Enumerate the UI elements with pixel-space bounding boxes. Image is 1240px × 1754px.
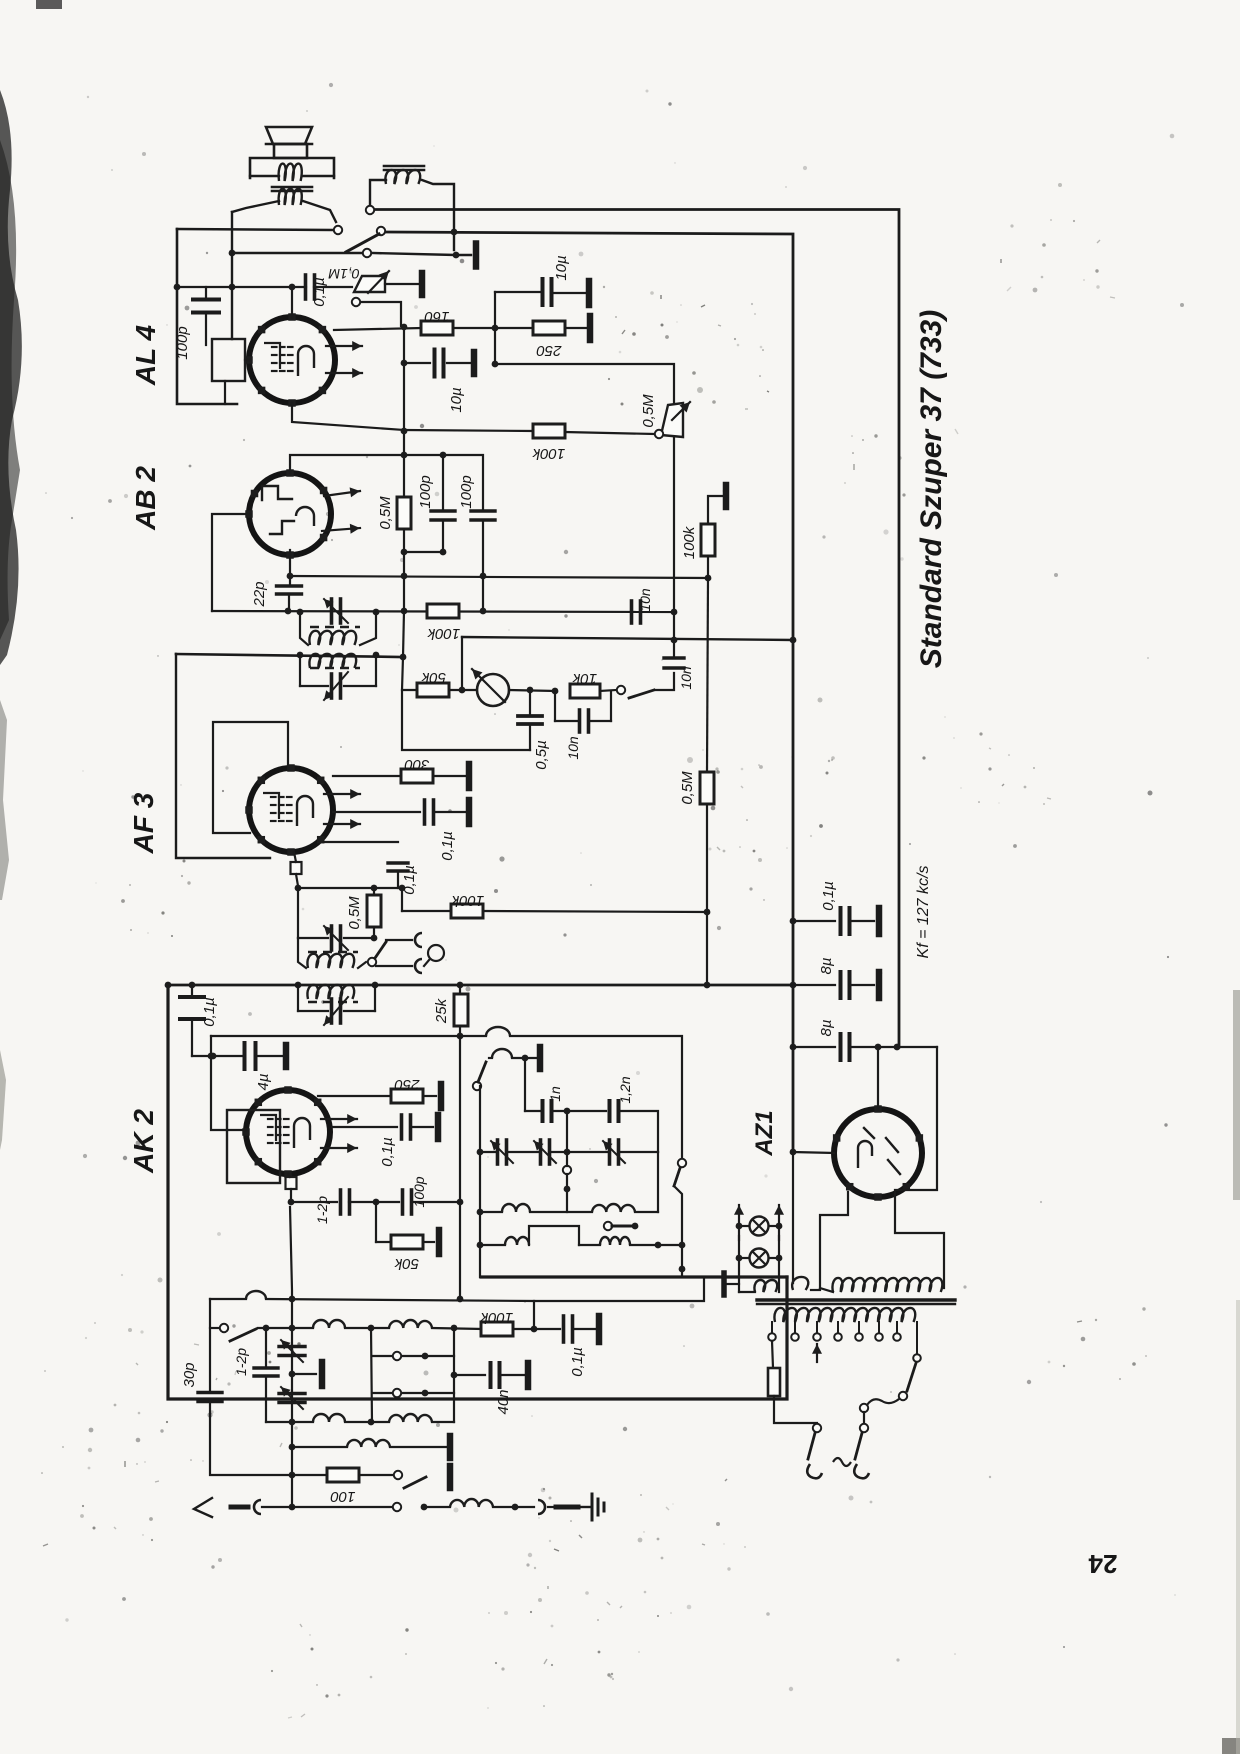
junction — [373, 1199, 380, 1206]
wire AB2 grid return — [212, 514, 250, 611]
svg-text:100p: 100p — [458, 475, 475, 508]
svg-text:Standard Szuper 37 (733): Standard Szuper 37 (733) — [915, 310, 948, 668]
svg-text:50k: 50k — [393, 1255, 419, 1272]
junction — [790, 1044, 797, 1051]
tube AL4 — [249, 317, 335, 403]
capacitor 100p — [177, 286, 306, 288]
svg-text:10µ: 10µ — [553, 255, 570, 280]
wire AF3 grid col — [297, 888, 299, 938]
junction — [459, 687, 466, 694]
coil mains tap loop — [792, 1277, 808, 1290]
svg-text:0,1µ: 0,1µ — [569, 1347, 586, 1377]
capacitor 30p — [198, 1391, 222, 1394]
wire AVC col — [402, 657, 530, 750]
resistor 10k — [570, 684, 600, 698]
switch mains blade1 — [808, 1433, 815, 1459]
svg-text:0,5M: 0,5M — [346, 896, 363, 930]
meter M — [477, 674, 509, 706]
contact volt b — [860, 1404, 868, 1412]
junction — [704, 909, 711, 916]
ground — [447, 1436, 454, 1458]
antenna A — [194, 1498, 212, 1517]
wire AZ1 left pin — [793, 1152, 834, 1153]
potentiometer 0,5M volume — [661, 403, 683, 437]
wire 4µ row — [192, 1055, 242, 1057]
junction — [174, 284, 181, 291]
junction — [705, 575, 712, 582]
resistor 100k ant — [481, 1322, 513, 1336]
wire — [428, 1506, 450, 1508]
resistor 160 — [421, 321, 453, 335]
mains prong 2 — [854, 1464, 869, 1478]
junction — [165, 982, 172, 989]
choke L-field — [384, 165, 424, 168]
switch band blade — [230, 1329, 256, 1341]
capacitor 0,1µ kc — [793, 920, 835, 922]
wire — [509, 690, 555, 691]
svg-text:100p: 100p — [411, 1176, 427, 1207]
ground — [876, 972, 883, 998]
wire osc coil row2 — [480, 1244, 505, 1246]
wire — [566, 1174, 568, 1212]
symbol ~ — [833, 1458, 851, 1466]
capacitor 100p b — [471, 509, 495, 512]
wire bus screen — [386, 232, 793, 1152]
wire diode line y552 — [404, 551, 443, 553]
svg-text:22p: 22p — [251, 581, 268, 607]
output transformer Tr1 primary — [250, 158, 334, 178]
svg-text:0,1µ: 0,1µ — [820, 881, 837, 911]
power transformer taps — [771, 1322, 773, 1332]
ground — [435, 1115, 442, 1139]
junction — [372, 982, 379, 989]
resistor 100k coupling — [533, 424, 565, 438]
capacitor 8µ b — [793, 1046, 835, 1048]
capacitor 22p — [289, 550, 291, 586]
junction — [297, 652, 304, 659]
resistor 0,5M AB2 — [397, 497, 411, 529]
switch mains blade2 — [855, 1433, 862, 1459]
wire AL4 left rail — [177, 229, 237, 404]
svg-text:25k: 25k — [433, 997, 450, 1024]
resistor 25k — [454, 994, 468, 1026]
tuning capacitor VC-a — [279, 1345, 305, 1348]
contact osc3 — [678, 1159, 686, 1167]
wire volt link — [867, 1399, 899, 1405]
wire antenna row — [262, 1506, 292, 1508]
wire 25k col — [459, 1036, 461, 1299]
contact pot — [352, 298, 360, 306]
wire — [706, 804, 708, 985]
fuse F1 — [772, 1341, 773, 1368]
svg-text:0,1µ: 0,1µ — [401, 865, 418, 895]
svg-text:100p: 100p — [174, 326, 191, 359]
wire bridge row 1 — [372, 1355, 454, 1357]
IF transformer T2 top trimmer — [298, 937, 328, 939]
svg-text:Kf = 127 kc/s: Kf = 127 kc/s — [915, 866, 932, 959]
wire 0,1µ col — [191, 985, 193, 995]
power transformer Tr2 primary — [774, 1308, 915, 1322]
switch blade — [404, 1477, 426, 1488]
wire — [566, 1111, 568, 1152]
junction — [440, 549, 447, 556]
ground — [596, 1316, 603, 1342]
wire AF3 grid line — [298, 887, 402, 889]
capacitor 0,1µ k — [324, 841, 398, 843]
wire ant box left — [209, 1299, 211, 1392]
svg-text:100k: 100k — [531, 445, 565, 462]
contact — [393, 1503, 401, 1511]
svg-text:1-2p: 1-2p — [314, 1196, 330, 1224]
junction — [229, 284, 236, 291]
svg-text:0,5µ: 0,5µ — [533, 740, 550, 770]
wire AK2 grid column — [290, 1207, 292, 1507]
svg-text:250: 250 — [536, 342, 563, 359]
junction — [453, 252, 460, 259]
core — [308, 951, 358, 954]
wire pot to plate line — [361, 302, 401, 326]
wire AF3 plate 300 — [333, 775, 402, 777]
wire plate col — [403, 327, 405, 455]
svg-text:50k: 50k — [420, 669, 446, 686]
wire coil row A — [258, 1327, 313, 1329]
svg-text:0,5M: 0,5M — [377, 496, 394, 530]
ground — [721, 1273, 727, 1295]
svg-text:10n: 10n — [637, 588, 653, 612]
tap arrow — [816, 1344, 818, 1362]
junction — [289, 1472, 296, 1479]
wire AK2 box — [168, 985, 787, 1399]
capacitor 0,1µ AL4 grid — [304, 275, 308, 299]
resistor 300 — [401, 769, 433, 783]
tuning capacitor VC-b — [279, 1392, 305, 1395]
capacitor 0,1µ sg — [333, 811, 420, 813]
junction — [790, 637, 797, 644]
wire det line y611 — [212, 611, 674, 612]
wire 0,5M col — [707, 578, 708, 771]
ground — [525, 1363, 532, 1387]
capacitor 10n parallel — [554, 691, 556, 721]
junction — [704, 982, 711, 989]
wire bridge row 2 — [372, 1392, 454, 1394]
junction — [401, 549, 408, 556]
wire — [292, 1373, 316, 1375]
svg-text:1,2n: 1,2n — [617, 1076, 633, 1103]
junction — [477, 1209, 484, 1216]
contact pu — [368, 958, 376, 966]
contact a2 — [334, 226, 342, 234]
capacitor 1-2p ant — [265, 1328, 267, 1366]
output transformer Tr1 core — [272, 186, 312, 189]
svg-text:AF 3: AF 3 — [128, 792, 159, 854]
grid cap AF3 — [291, 862, 302, 874]
contact osc2 — [563, 1166, 571, 1174]
junction — [457, 1033, 464, 1040]
wire — [656, 673, 674, 690]
wire — [565, 432, 654, 434]
wire mains bar — [727, 1283, 739, 1285]
junction — [263, 1325, 270, 1332]
contact tap — [604, 1222, 612, 1230]
contact mains1 — [813, 1424, 821, 1432]
switch blade pu — [375, 942, 386, 958]
capacitor 100p osc — [349, 1201, 399, 1203]
junction — [531, 1326, 538, 1333]
contact a4 — [363, 249, 371, 257]
output transformer Tr1 secondary — [279, 189, 302, 205]
coil fil hairpin — [754, 1280, 777, 1292]
svg-text:160: 160 — [424, 308, 450, 325]
contact band1 — [220, 1324, 228, 1332]
svg-text:1-2p: 1-2p — [233, 1348, 249, 1376]
wire — [548, 1506, 554, 1508]
wire — [513, 1328, 560, 1330]
junction — [440, 452, 447, 459]
contact — [393, 1389, 401, 1397]
speaker LS — [266, 127, 312, 144]
ground — [447, 1466, 454, 1488]
grid cap AK2 — [286, 1177, 297, 1189]
resistor 0,5M AF3 — [367, 895, 381, 927]
mains prong 1 — [807, 1464, 822, 1478]
junction — [289, 1371, 296, 1378]
resistor 100k AF3 — [451, 904, 483, 918]
wire AZ1 fil 1 — [820, 1192, 848, 1288]
resistor 100 ant — [327, 1468, 359, 1482]
ground — [586, 281, 593, 305]
svg-text:1n: 1n — [547, 1086, 563, 1102]
wire y364 to volume pot — [495, 364, 674, 403]
junction — [297, 609, 304, 616]
wire AL4 plate stub — [291, 287, 293, 318]
capacitor 10n to AVC — [664, 656, 684, 659]
ground — [319, 1362, 326, 1386]
ground — [466, 764, 473, 788]
junction — [371, 885, 378, 892]
svg-text:10µ: 10µ — [448, 387, 465, 412]
junction — [451, 229, 458, 236]
resistor 0,5M right — [700, 772, 714, 804]
tube AZ1 — [834, 1109, 922, 1197]
capacitor 100p plates — [205, 287, 207, 298]
wire plate line y328 — [334, 328, 421, 330]
wire OT return — [231, 212, 233, 339]
switch volt blade — [907, 1363, 916, 1391]
junction — [457, 1199, 464, 1206]
wire 0,5M col — [403, 552, 405, 611]
capacitor 8µ a — [793, 984, 835, 986]
svg-text:10n: 10n — [678, 666, 694, 690]
wire — [401, 888, 403, 911]
junction — [401, 452, 408, 459]
wire AVC bus left drop — [176, 654, 270, 858]
junction — [457, 982, 464, 989]
wire 10u col — [494, 292, 496, 364]
wire AVC bus — [176, 654, 402, 657]
svg-text:0,1µ: 0,1µ — [201, 997, 218, 1027]
svg-text:100k: 100k — [479, 1309, 513, 1326]
contact pot — [655, 430, 663, 438]
svg-text:100p: 100p — [417, 475, 434, 508]
junction — [894, 1044, 901, 1051]
contact — [393, 1352, 401, 1360]
svg-text:0,1µ: 0,1µ — [439, 831, 456, 861]
wire — [600, 690, 616, 691]
junction — [373, 652, 380, 659]
junction — [371, 935, 378, 942]
resistor 250 — [533, 321, 565, 335]
svg-text:10n: 10n — [565, 736, 581, 760]
junction — [451, 1325, 458, 1332]
junction — [679, 1266, 686, 1273]
ground — [587, 316, 594, 340]
junction — [480, 608, 487, 615]
junction — [552, 688, 559, 695]
contact a1 — [366, 206, 374, 214]
contact a3 — [377, 227, 385, 235]
ground — [436, 1230, 443, 1254]
junction — [421, 1504, 428, 1511]
capacitor 0,1µ ant — [562, 1316, 566, 1342]
wire — [493, 1506, 534, 1508]
svg-text:40n: 40n — [495, 1389, 512, 1414]
wire coil row B — [266, 1421, 313, 1423]
svg-text:AK 2: AK 2 — [128, 1109, 159, 1174]
junction — [422, 1390, 429, 1397]
ground — [473, 244, 480, 267]
svg-text:100k: 100k — [426, 625, 460, 642]
switch S1 blade — [346, 234, 379, 252]
capacitor 40n — [451, 1372, 458, 1379]
resistor 100k AB2 plate — [427, 604, 459, 618]
switch blade det — [629, 690, 654, 698]
svg-text:8µ: 8µ — [818, 1020, 835, 1037]
wire osc bus y1036 — [211, 1035, 486, 1037]
wire mains bus drop — [792, 1152, 794, 1283]
tube AK2 — [246, 1090, 330, 1174]
contact det — [617, 686, 625, 694]
svg-text:100: 100 — [330, 1488, 356, 1505]
wire bus B+ top — [375, 210, 899, 1048]
junction — [368, 1325, 375, 1332]
ground — [438, 1084, 445, 1108]
grid box AK2 — [227, 1110, 280, 1183]
wire AB2 top — [290, 455, 483, 511]
pilot lamp 1 — [750, 1217, 769, 1236]
symbol Q — [428, 945, 444, 961]
capacitor 1,2n — [608, 1101, 612, 1121]
wire padder row — [480, 1151, 496, 1153]
junction — [368, 1419, 375, 1426]
pilot lamp rail R — [778, 1205, 780, 1240]
svg-text:0,1µ: 0,1µ — [311, 277, 328, 307]
switch osc blade — [478, 1062, 486, 1082]
ground — [723, 485, 730, 507]
core — [308, 1001, 358, 1004]
wire AF3 grid loop — [213, 722, 288, 833]
trimmer Ct3 — [608, 1140, 612, 1164]
capacitor 0,1µ AK2g — [180, 995, 204, 999]
wire cath drop — [211, 1036, 246, 1130]
junction — [289, 1419, 296, 1426]
wire mains 1 — [774, 1396, 817, 1423]
junction — [477, 1149, 484, 1156]
wire band rail 2 — [453, 1328, 455, 1422]
svg-text:250: 250 — [394, 1076, 421, 1093]
svg-text:AL 4: AL 4 — [130, 324, 161, 386]
ground — [419, 273, 426, 295]
core — [310, 667, 360, 670]
coil ant series — [450, 1499, 493, 1507]
svg-text:24: 24 — [1088, 1549, 1117, 1579]
contact volt a — [899, 1392, 907, 1400]
wire bus y229 — [177, 229, 333, 230]
junction — [790, 982, 797, 989]
capacitor 4µ — [243, 1043, 247, 1069]
IF transformer T2 top coil — [298, 938, 306, 968]
jack earth — [538, 1500, 545, 1514]
junction — [671, 609, 678, 616]
wire — [524, 1058, 526, 1111]
power transformer Tr2 HV winding — [832, 1278, 942, 1292]
contact — [394, 1471, 402, 1479]
ground — [471, 352, 478, 374]
wire osc coil row1 — [480, 1211, 502, 1213]
svg-text:AZ1: AZ1 — [751, 1110, 778, 1156]
IF transformer T1 top trimmer — [330, 599, 334, 623]
junction — [285, 608, 292, 615]
wire AK2 sg row — [318, 1095, 391, 1097]
contact osc1 — [473, 1082, 481, 1090]
wire gnd bus y985 — [168, 984, 793, 987]
svg-text:AB 2: AB 2 — [130, 466, 161, 531]
trimmer Ct1 — [496, 1140, 500, 1164]
junction — [790, 918, 797, 925]
junction — [289, 1296, 296, 1303]
ground — [537, 1047, 544, 1069]
svg-text:4µ: 4µ — [255, 1074, 272, 1091]
svg-text:100k: 100k — [450, 892, 484, 909]
wire — [565, 327, 586, 329]
IF transformer T1 top coil — [300, 612, 308, 645]
earth ground F — [578, 1506, 590, 1508]
wire pot right gnd — [385, 283, 418, 285]
svg-text:10k: 10k — [571, 670, 597, 687]
junction — [522, 1055, 529, 1062]
wire AF3 100k line — [402, 910, 451, 912]
tube AB2 — [249, 473, 331, 555]
potentiometer 0,1M — [354, 276, 385, 292]
jack Gr bottom — [415, 959, 422, 973]
svg-text:0,1M: 0,1M — [328, 266, 359, 282]
capacitor 100p a — [442, 455, 444, 511]
resistor 250 AK2 — [391, 1089, 423, 1103]
capacitor 10µ screen — [495, 291, 541, 293]
wire AZ1 plate 2 — [895, 1047, 944, 1288]
power transformer Tr2 core — [757, 1298, 955, 1301]
junction — [295, 885, 302, 892]
junction — [512, 1504, 519, 1511]
svg-text:100k: 100k — [681, 525, 698, 559]
contact mains2 — [860, 1424, 868, 1432]
wire AZ1 cathode — [877, 1047, 879, 1109]
ground — [466, 800, 473, 824]
svg-text:300: 300 — [404, 756, 430, 773]
svg-text:8µ: 8µ — [818, 958, 835, 975]
wire volt tap8 — [916, 1322, 918, 1354]
trimmer Ct2 — [539, 1140, 543, 1164]
wire — [863, 1412, 865, 1423]
